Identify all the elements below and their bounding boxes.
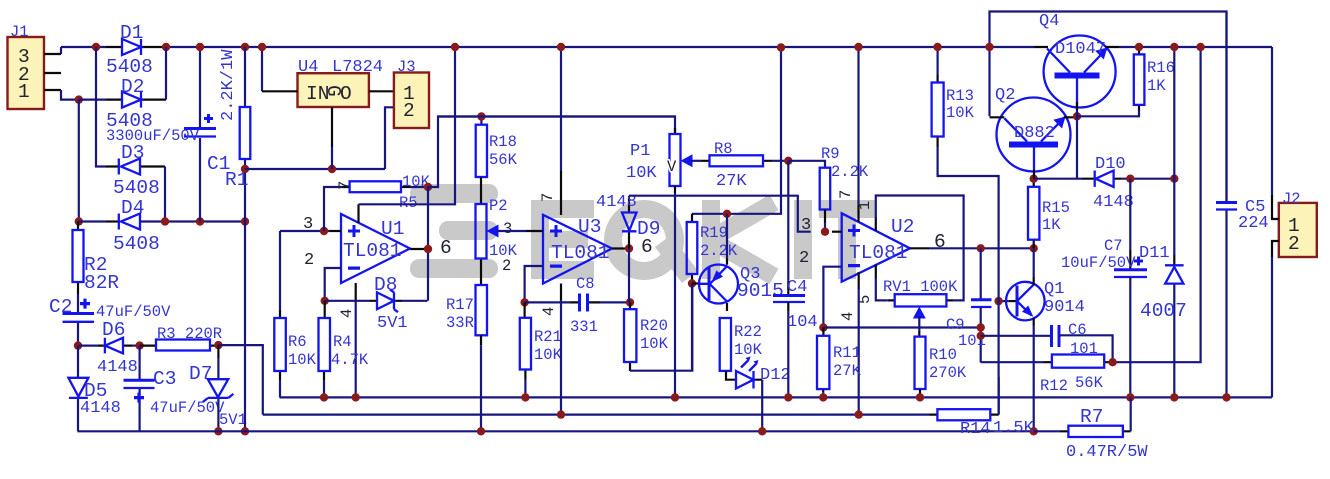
U3 pin4 down (560, 284, 562, 301)
P1 wiper arrow (681, 154, 693, 167)
node R1 bottom (241, 165, 249, 173)
svg-text:J3: J3 (397, 58, 416, 76)
diode D8 5V1 (325, 300, 370, 302)
U1 pin3 wire (280, 230, 330, 232)
watermark letter E (531, 200, 594, 279)
diode D9 4148 (628, 196, 630, 249)
svg-text:C7: C7 (1104, 237, 1123, 255)
P2 wiper arrow (487, 225, 499, 238)
node line1 R21 (521, 393, 529, 401)
node D6/C3 (135, 341, 143, 349)
svg-text:10K: 10K (640, 335, 669, 353)
connector J2 (1279, 203, 1317, 257)
node top bus x200 (196, 43, 204, 51)
resistor R17 33R (476, 285, 488, 335)
op-amp U2 TL081 (842, 213, 910, 281)
watermark letter K (702, 200, 720, 279)
svg-text:U2: U2 (891, 216, 914, 238)
resistor R18 56K (480, 117, 482, 125)
svg-text:U1: U1 (381, 218, 404, 240)
svg-text:L7824: L7824 (332, 58, 383, 77)
resistor R20 10K (629, 302, 631, 371)
wire R19 node down to R20 row (691, 284, 693, 371)
node D4 row x165 (161, 217, 169, 225)
wire C2 to D6 (78, 345, 98, 347)
wire R12 row to bus column (1113, 47, 1201, 362)
diode D5 4148 (77, 346, 79, 432)
svg-text:9015: 9015 (737, 280, 784, 302)
capacitor C3 47uF/50V (139, 346, 141, 432)
node pin6 / R15 / Q1 collector (1030, 244, 1038, 252)
wire pin2 row to C9 (823, 326, 980, 328)
wire pin3 up to R5 (324, 187, 342, 231)
svg-text:4: 4 (338, 309, 356, 318)
node U2 pin3 / R9 (821, 228, 829, 236)
U2 pin4 down (858, 272, 860, 289)
svg-text:R12: R12 (1040, 377, 1068, 395)
J1 pin 3 (44, 53, 61, 55)
wire D2 row (79, 98, 106, 100)
U3 pin6 stub (612, 247, 629, 249)
node line3 R17 (477, 427, 485, 435)
svg-text:10K: 10K (734, 341, 763, 359)
svg-text:1: 1 (18, 81, 30, 103)
node line1 D11 (1170, 393, 1178, 401)
svg-text:D7: D7 (189, 363, 212, 385)
svg-text:R16: R16 (1147, 59, 1175, 77)
node D10 / C7 (1126, 175, 1134, 183)
svg-text:O: O (340, 83, 352, 105)
wire bus to J2 pin1 (1271, 47, 1273, 195)
svg-text:10uF/50V: 10uF/50V (1061, 254, 1136, 272)
svg-text:2.2K/1W: 2.2K/1W (219, 49, 238, 121)
node top bus x781 (777, 43, 785, 51)
node line3 x218 (214, 427, 222, 435)
node line1 R10 (916, 393, 924, 401)
U2 pin7 (857, 47, 859, 205)
svg-text:27K: 27K (833, 362, 862, 380)
node U3 pin6 (625, 244, 633, 252)
wire line1 (280, 396, 1272, 398)
capacitor C1 3300uF/50V (199, 47, 201, 222)
node top bus x858 (854, 43, 862, 51)
op-amp U1 TL081 (341, 214, 410, 283)
resistor R1 2.2K/1W (244, 47, 246, 222)
svg-text:6: 6 (934, 231, 946, 253)
node R12 right / C6 (1108, 358, 1116, 366)
node line2 U3 pin4 (557, 410, 565, 418)
node Q2 base / R15 top (1030, 175, 1038, 183)
svg-text:224: 224 (1238, 214, 1269, 233)
wire R13 bottom to Q1 base column (938, 147, 999, 415)
svg-text:P2: P2 (489, 197, 508, 215)
resistor R22 10K (720, 318, 731, 371)
node top bus x262 (258, 43, 266, 51)
svg-text:R22: R22 (734, 323, 762, 341)
svg-text:1.5K: 1.5K (993, 419, 1035, 438)
node line1 R11 (819, 393, 827, 401)
diode D3 (106, 165, 165, 167)
svg-text:27K: 27K (716, 172, 747, 191)
capacitor C4 104 (787, 161, 789, 281)
node Q1 base (994, 297, 1002, 305)
wire J2 pin2 to line1 (1271, 257, 1273, 397)
wire R18 top row y116 (438, 115, 675, 117)
node C9 / C6 row (977, 332, 985, 340)
diode D6 4148 (98, 345, 132, 347)
wire J1 pin3 to top bus (60, 47, 62, 54)
svg-text:1K: 1K (1042, 216, 1061, 234)
wire D3 down to D4 row (164, 167, 166, 222)
resistor R10 270K (915, 337, 926, 389)
svg-text:331: 331 (570, 318, 598, 336)
node line3 D12 (758, 427, 766, 435)
RV1 wiper arrow (913, 307, 926, 319)
node top bus D11 (1170, 43, 1178, 51)
diode D11 4007 (1173, 47, 1175, 397)
resistor R9 2.2K (820, 168, 831, 210)
svg-text:0.47R/5W: 0.47R/5W (1066, 443, 1148, 462)
U2 pin6 (910, 247, 929, 249)
svg-text:3: 3 (801, 216, 811, 235)
watermark letter Q (604, 200, 684, 280)
node Q3 emitter (723, 210, 731, 218)
svg-text:270K: 270K (929, 364, 967, 382)
svg-text:D12: D12 (760, 366, 791, 385)
wire gnd row y169 (245, 168, 385, 170)
svg-text:R21: R21 (534, 328, 562, 346)
svg-text:104: 104 (787, 313, 818, 332)
svg-text:R13: R13 (946, 87, 974, 105)
node C8 right / R20 (626, 298, 634, 306)
wire Q4 base down to D10 row (1076, 102, 1078, 179)
svg-text:Q2: Q2 (995, 86, 1015, 105)
svg-text:Q4: Q4 (1039, 12, 1059, 31)
svg-text:R10: R10 (929, 346, 957, 364)
wire line3 (78, 430, 1034, 432)
U1 pin4 down (355, 283, 357, 300)
node D4 row x245 (241, 217, 249, 225)
watermark letter Q tail (655, 235, 698, 283)
node R18 top (477, 112, 485, 120)
wire D4 row (79, 220, 245, 222)
node top bus R13 (933, 43, 941, 51)
diode D4 (106, 220, 118, 222)
svg-text:5408: 5408 (106, 56, 153, 78)
op-amp U3 TL081 (543, 215, 612, 284)
svg-text:R7: R7 (1080, 406, 1103, 428)
svg-text:56K: 56K (489, 151, 518, 169)
transistor Q3 9015 (726, 214, 728, 258)
svg-text:C3: C3 (153, 368, 176, 390)
wire R19 row y213.8 (692, 48, 781, 214)
resistor R6 10K (279, 231, 281, 310)
svg-text:D11: D11 (1139, 244, 1170, 263)
connector J3 (394, 73, 429, 129)
J2 pin2 lead (1272, 241, 1279, 257)
watermark letter T (819, 200, 875, 279)
resistor R15 1K (1033, 179, 1035, 249)
svg-text:R18: R18 (489, 133, 517, 151)
node U2 pin2 / R11 (819, 323, 827, 331)
svg-text:D8: D8 (374, 274, 397, 296)
svg-text:R11: R11 (833, 344, 861, 362)
svg-text:R14: R14 (960, 420, 991, 439)
U1 pin7 (357, 204, 359, 223)
watermark logo bar bottom (410, 259, 498, 278)
resistor R13 10K (936, 75, 938, 148)
svg-text:4148: 4148 (1093, 193, 1134, 212)
svg-text:2: 2 (304, 251, 314, 270)
svg-text:10K: 10K (288, 351, 317, 369)
svg-text:D1047: D1047 (1055, 40, 1106, 59)
capacitor C5 224 (1225, 12, 1227, 398)
svg-text:5V1: 5V1 (377, 314, 408, 333)
wire bus down to D3 row (96, 47, 106, 167)
svg-text:2.2K: 2.2K (700, 242, 738, 260)
U2 pin2 wire (823, 267, 841, 328)
watermark letter I (794, 200, 812, 279)
wire R5 right branch up (428, 117, 675, 188)
svg-text:U4: U4 (298, 58, 318, 77)
svg-text:D10: D10 (1095, 155, 1126, 174)
resistor R2 82R (77, 222, 79, 295)
diode D12 LED (726, 371, 762, 380)
node top bus R16 (1135, 43, 1143, 51)
svg-text:2: 2 (1288, 233, 1300, 255)
svg-text:3300uF/50V: 3300uF/50V (106, 127, 200, 145)
J2 pin1 lead (1272, 195, 1279, 219)
wire vertical x245 to line3 (244, 222, 246, 432)
wire U4 IN to bus (261, 47, 263, 91)
resistor R21 10K (523, 302, 526, 379)
svg-text:U3: U3 (578, 216, 601, 238)
svg-text:C8: C8 (576, 275, 595, 293)
svg-text:TL081: TL081 (343, 240, 402, 262)
wire Q2 collector column (990, 12, 1227, 203)
diode D1 (106, 46, 166, 48)
svg-text:10K: 10K (626, 164, 657, 183)
svg-text:R20: R20 (640, 317, 668, 335)
U2 pin3 (832, 231, 842, 233)
node U3 pin2/C8/R21 (520, 298, 528, 306)
svg-text:J1: J1 (10, 23, 29, 41)
wire top bus D1 to Q4 (166, 46, 1035, 48)
resistor R4 4.7K (323, 301, 326, 380)
svg-text:Q1: Q1 (1044, 280, 1064, 299)
svg-text:J2: J2 (1282, 190, 1301, 208)
node U1 pin3 (320, 227, 328, 235)
capacitor C7 10uF/50V (1129, 179, 1131, 250)
svg-text:V: V (667, 158, 677, 176)
svg-text:4148: 4148 (97, 358, 138, 377)
svg-text:4: 4 (540, 307, 558, 316)
node top bus x1200 (1196, 43, 1204, 51)
svg-text:R8: R8 (714, 140, 733, 158)
U4 pin OUT (369, 90, 394, 92)
svg-text:D2: D2 (121, 76, 144, 98)
U4 pin GND (331, 107, 333, 147)
svg-text:4: 4 (839, 312, 857, 321)
svg-text:TL081: TL081 (551, 242, 610, 264)
node top bus x245 (241, 43, 249, 51)
node line3 x245 (241, 427, 249, 435)
svg-text:82R: 82R (84, 272, 119, 294)
wire D6 to R3 (132, 345, 140, 347)
svg-text:R9: R9 (821, 145, 840, 163)
capacitor C9 101 (980, 248, 982, 362)
node D4 row left (75, 217, 83, 225)
watermark logo bar mid (439, 221, 498, 240)
node R8 right (784, 157, 792, 165)
svg-text:R6: R6 (288, 333, 307, 351)
node D4 row x200 (196, 217, 204, 225)
resistor R5 10K (342, 186, 410, 188)
node top bus Q2 collector (985, 43, 993, 51)
node top bus x561 (557, 43, 565, 51)
svg-text:TL081: TL081 (849, 242, 908, 264)
svg-text:1K: 1K (1147, 77, 1166, 95)
node line1 C5 (1222, 393, 1230, 401)
svg-text:56K: 56K (1075, 374, 1104, 392)
diode D10 4148 (1082, 178, 1122, 180)
node top bus x166 (162, 43, 170, 51)
capacitor C8 331 (525, 301, 571, 303)
wire J1 pin1 col down to D4 row (78, 100, 80, 222)
node line3 Q1 emitter / R7 (1030, 427, 1038, 435)
node line1 U1 pin4 (352, 393, 360, 401)
svg-text:RV1 100K: RV1 100K (883, 278, 958, 296)
resistor R19 2.2K (691, 214, 693, 284)
wire J3 pin2 drop (385, 107, 394, 169)
wire R3 right to line2 (218, 345, 262, 415)
svg-text:C4: C4 (787, 278, 807, 297)
U3 pin3 stub (526, 230, 543, 232)
node line1 C7/R7 (1126, 393, 1134, 401)
resistor R14 1.5K (930, 414, 999, 416)
node C2 bottom (74, 341, 82, 349)
svg-text:10K: 10K (946, 104, 975, 122)
svg-text:R17: R17 (446, 296, 474, 314)
node C9 bottom pin2 row (977, 323, 985, 331)
svg-text:6: 6 (440, 237, 452, 259)
svg-text:33R: 33R (446, 314, 474, 332)
svg-text:7: 7 (539, 193, 557, 202)
svg-text:9014: 9014 (1044, 298, 1085, 317)
wire top bus right of Q4 (1119, 46, 1272, 48)
wire J1 pin1 down to D2 row (61, 90, 79, 100)
resistor R8 27K (701, 160, 772, 162)
svg-text:47uF/50V: 47uF/50V (150, 399, 225, 417)
wire D9 anode row y195.7 (629, 196, 811, 232)
svg-text:D9: D9 (637, 218, 660, 240)
node D10 / D11 column (1170, 175, 1178, 183)
svg-text:D6: D6 (102, 319, 125, 341)
potentiometer P2 10K (480, 177, 482, 285)
svg-text:R15: R15 (1042, 199, 1070, 217)
svg-text:5V1: 5V1 (219, 411, 247, 429)
svg-text:R19: R19 (700, 224, 728, 242)
diode D7 5V1 (217, 345, 219, 358)
U3 pin2 wire (525, 266, 543, 302)
wire D2 up to bus (165, 47, 167, 100)
svg-text:R4: R4 (333, 333, 352, 351)
node R5 right (424, 183, 432, 191)
node D2 row left (75, 95, 83, 103)
svg-text:2: 2 (799, 249, 809, 268)
node line1 P1 (671, 393, 679, 401)
node top bus x455 (451, 43, 459, 51)
J1 pin 1 (44, 89, 61, 91)
node line1 C4 (784, 393, 792, 401)
wire R5 node down to pin6 (427, 187, 429, 301)
transistor Q4 D1047 (1044, 36, 1116, 108)
node top bus x96 (92, 43, 100, 51)
svg-text:D4: D4 (121, 197, 144, 219)
svg-text:2.2K: 2.2K (831, 163, 869, 181)
regulator U4 L7824 (298, 73, 369, 107)
watermark logo bar top (410, 184, 498, 203)
resistor R12 56K (1044, 361, 1113, 363)
trimmer RV1 100K (888, 299, 953, 301)
svg-text:5408: 5408 (113, 177, 160, 199)
transistor Q2 D882 (997, 98, 1071, 172)
svg-text:4007: 4007 (1140, 300, 1187, 322)
transistor Q1 9014 (999, 300, 1009, 302)
resistor R3 220R (140, 345, 219, 347)
svg-text:7: 7 (336, 181, 354, 190)
svg-text:4.7K: 4.7K (331, 351, 369, 369)
U3 pin7 (560, 47, 562, 171)
U1 pin2 wire (325, 268, 341, 301)
wire line2 (263, 414, 930, 416)
U2 pin5 (875, 265, 877, 279)
resistor R16 1K (1138, 47, 1140, 111)
U1 pin 6 output (410, 248, 428, 250)
node R19 bottom / Q3 base (688, 279, 696, 287)
node line2 U2 pin4 / R14 (855, 410, 863, 418)
svg-text:5408: 5408 (113, 233, 160, 255)
U4 pin IN (262, 90, 298, 92)
node Q2 emitter / Q4 base (1073, 112, 1081, 120)
svg-text:1: 1 (856, 201, 874, 210)
svg-text:D1: D1 (120, 22, 143, 44)
node line1 R4 (320, 393, 328, 401)
node U1 pin2/R4/D8 (321, 297, 329, 305)
svg-text:P1: P1 (630, 142, 650, 161)
U2 pin1 loop (875, 217, 877, 231)
svg-text:3: 3 (503, 220, 512, 238)
wire top bus left (61, 46, 106, 48)
svg-text:10K: 10K (534, 346, 563, 364)
svg-text:2: 2 (403, 100, 415, 122)
node R3 right (214, 341, 222, 349)
svg-text:4148: 4148 (80, 399, 121, 418)
potentiometer P1 10K (674, 128, 676, 134)
svg-text:D3: D3 (121, 142, 144, 164)
resistor R7 0.47R/5W (1034, 430, 1060, 432)
J1 pin 2 (44, 72, 61, 74)
node U4 gnd (328, 165, 336, 173)
svg-text:2: 2 (502, 257, 511, 275)
diode D2 (106, 98, 166, 100)
resistor R11 27K (822, 328, 824, 393)
capacitor C6 101 (981, 335, 1051, 337)
capacitor C2 47uF/50V (63, 312, 95, 315)
svg-text:3: 3 (303, 215, 313, 234)
svg-text:R5: R5 (399, 194, 418, 212)
svg-text:C2: C2 (49, 296, 72, 318)
